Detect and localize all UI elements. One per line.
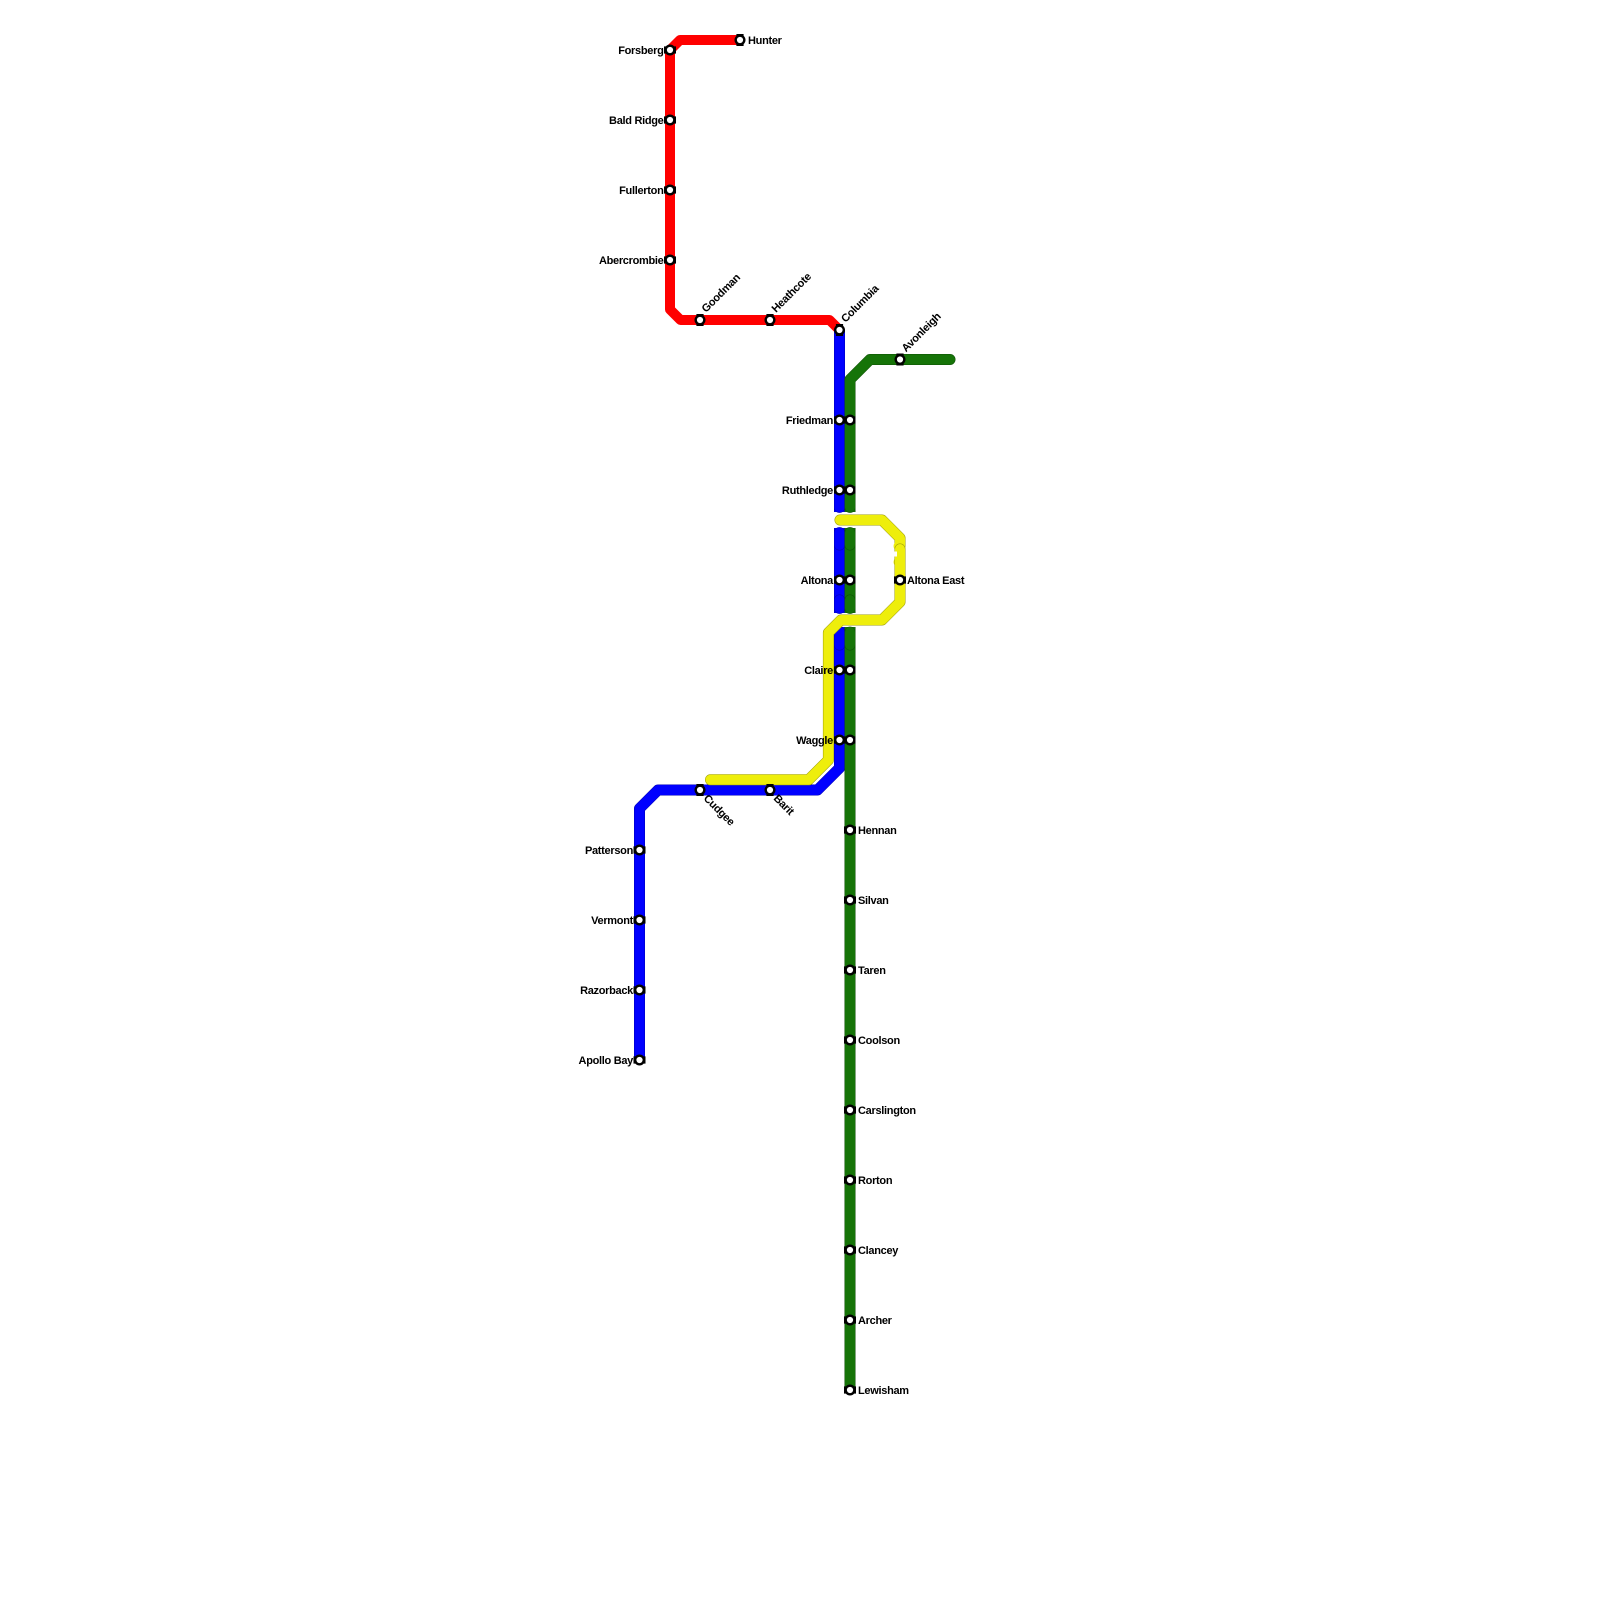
svg-text:Hunter: Hunter	[748, 35, 783, 47]
svg-text:Bald Ridge: Bald Ridge	[609, 115, 664, 127]
wire: blue line Columbia-Apollo Bay	[640, 330, 840, 1060]
svg-text:Clancey: Clancey	[858, 1245, 899, 1257]
wire: green line Avonleigh branch	[850, 360, 950, 385]
svg-text:Lewisham: Lewisham	[858, 1385, 909, 1397]
station Carslington	[844, 1105, 916, 1118]
blue segment cap stubs at crossings	[834, 495, 845, 507]
white notch between yellow segment caps	[891, 552, 898, 557]
svg-text:Abercrombie: Abercrombie	[599, 255, 664, 267]
wire: red line Hunter-Columbia	[670, 40, 840, 330]
station Coolson	[844, 1035, 900, 1048]
svg-text:Patterson: Patterson	[585, 845, 634, 857]
interchange Altona	[801, 575, 856, 588]
svg-text:Waggle: Waggle	[796, 735, 833, 747]
interchange Ruthledge	[782, 485, 856, 498]
station Avonleigh	[895, 310, 944, 365]
wire: green under-edge trunk	[845, 380, 856, 1390]
svg-text:Hennan: Hennan	[858, 825, 897, 837]
svg-text:Forsberg: Forsberg	[618, 45, 663, 57]
wire: green under-edge branch	[850, 360, 950, 385]
svg-text:Altona East: Altona East	[907, 575, 965, 587]
svg-text:Altona: Altona	[801, 575, 835, 587]
station Cudgee	[695, 784, 737, 829]
station Hennan	[844, 825, 897, 838]
station Patterson	[585, 845, 646, 858]
station Goodman	[695, 271, 744, 326]
station Fullerton	[619, 185, 676, 198]
svg-text:Friedman: Friedman	[786, 415, 834, 427]
interchange Claire	[804, 665, 855, 678]
green segment cap stubs at crossings	[845, 495, 856, 507]
station Taren	[844, 965, 886, 978]
white breaks in blue/green at yellow crossings	[834, 512, 857, 528]
station Clancey	[844, 1245, 899, 1258]
wire: yellow loop upper	[840, 520, 900, 546]
station Apollo Bay	[579, 1055, 646, 1068]
station Columbia	[834, 282, 882, 336]
svg-text:Apollo Bay: Apollo Bay	[579, 1055, 635, 1067]
station Razorback	[580, 985, 645, 998]
interchange Friedman	[786, 415, 856, 428]
yellow segment cap bumps	[894, 541, 904, 551]
wire: yellow under-edge upper	[840, 520, 900, 546]
svg-text:Ruthledge: Ruthledge	[782, 485, 833, 497]
station Heathcote	[765, 271, 814, 326]
station Lewisham	[844, 1385, 909, 1398]
station Archer	[844, 1315, 893, 1328]
station Silvan	[844, 895, 889, 908]
stations	[579, 34, 965, 1397]
svg-text:Razorback: Razorback	[580, 985, 634, 997]
station Hunter	[735, 34, 783, 47]
station Abercrombie	[599, 255, 676, 268]
svg-text:Rorton: Rorton	[858, 1175, 893, 1187]
svg-text:Coolson: Coolson	[858, 1035, 900, 1047]
station Vermont	[591, 915, 645, 928]
station Forsberg	[618, 45, 676, 58]
svg-text:Archer: Archer	[858, 1315, 893, 1327]
station Rorton	[844, 1175, 893, 1188]
svg-text:Carslington: Carslington	[858, 1105, 916, 1117]
station Altona East	[894, 575, 965, 588]
svg-text:Taren: Taren	[858, 965, 886, 977]
svg-text:Vermont: Vermont	[591, 915, 634, 927]
wire: yellow under-edge lower	[711, 549, 901, 780]
svg-text:Fullerton: Fullerton	[619, 185, 664, 197]
interchange Waggle	[796, 735, 855, 748]
svg-text:Silvan: Silvan	[858, 895, 889, 907]
wire: green line trunk to Lewisham	[845, 380, 855, 1390]
station Barit	[765, 784, 797, 818]
wire: yellow loop lower through Altona East to end	[711, 549, 901, 780]
wire: blue line under-edge	[640, 330, 840, 1060]
station Bald Ridge	[609, 115, 676, 128]
svg-text:Claire: Claire	[804, 665, 833, 677]
